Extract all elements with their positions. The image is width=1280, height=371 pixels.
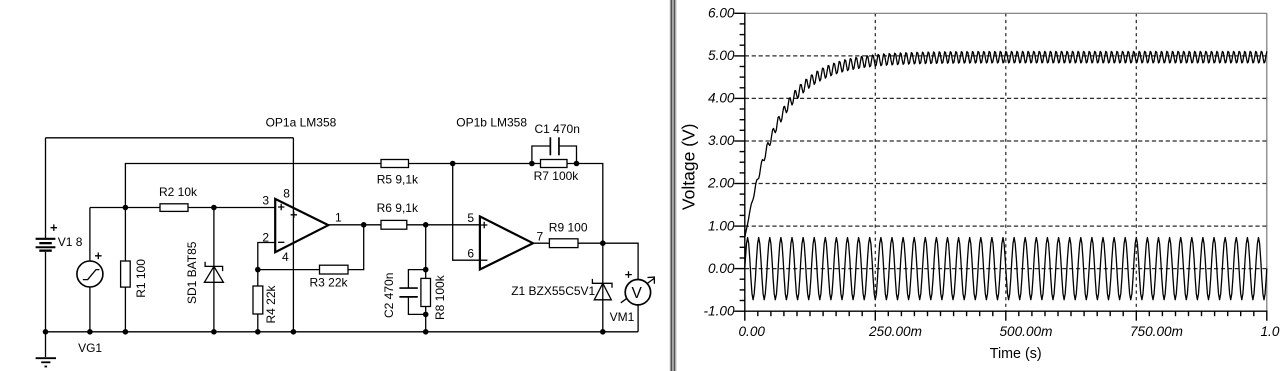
svg-text:6.00: 6.00 (708, 6, 735, 21)
svg-text:4.00: 4.00 (708, 91, 735, 106)
wire: OP1b output to R9 (533, 242, 549, 244)
svg-text:R7 100k: R7 100k (534, 169, 580, 183)
y minor ticks (740, 300, 746, 302)
svg-text:0.00: 0.00 (708, 261, 735, 276)
svg-text:C1 470n: C1 470n (535, 122, 580, 136)
svg-text:8: 8 (283, 187, 290, 201)
svg-text:SD1 BAT85: SD1 BAT85 (185, 241, 199, 304)
zener Z1 (592, 243, 612, 332)
svg-text:C2 470n: C2 470n (382, 273, 396, 318)
trace: sine input (745, 238, 1267, 300)
node: C2 branch bottom (423, 312, 429, 318)
node: C2 branch top (423, 267, 429, 273)
op-amp U2 OP1b (480, 216, 533, 269)
chart y axis (744, 13, 746, 312)
svg-text:250.00m: 250.00m (868, 324, 922, 339)
svg-text:500.00m: 500.00m (1000, 324, 1053, 339)
node: VG1 bottom junction (87, 329, 93, 335)
wire: VM1 top branch (603, 243, 638, 279)
wire: OP1a supply rail pin8/pin4 (292, 138, 294, 332)
chart frame right (1266, 13, 1268, 311)
resistor R2 (160, 204, 188, 212)
node: R3 output junction (361, 222, 367, 228)
trace: rectified average output (745, 51, 1267, 238)
op-amp U1 OP1a (275, 199, 328, 252)
resistor R1 (121, 208, 131, 332)
svg-text:V: V (632, 285, 643, 302)
svg-text:750.00m: 750.00m (1130, 324, 1183, 339)
resistor R9 (549, 239, 578, 248)
node: ground rail left junction (43, 329, 49, 335)
wire: R9 right lead (578, 242, 603, 244)
chart grid horizontal dashed lines (745, 268, 1267, 270)
wire: battery bottom lead to ground rail (45, 252, 47, 332)
svg-text:R5 9,1k: R5 9,1k (377, 172, 419, 186)
chart frame top (745, 12, 1267, 14)
resistor R3 (320, 265, 349, 274)
svg-text:R9 100: R9 100 (549, 221, 588, 235)
node: C2 R8 top junction (423, 222, 429, 228)
window splitter divider (670, 0, 677, 371)
svg-text:R4 22k: R4 22k (264, 284, 278, 323)
wire: R7 right to output rail (567, 164, 603, 244)
svg-text:3.00: 3.00 (708, 133, 735, 148)
battery V1 (36, 224, 58, 251)
x minor ticks (757, 311, 759, 317)
node: R4 bottom junction (255, 329, 261, 335)
svg-text:R2 10k: R2 10k (159, 185, 198, 199)
svg-text:5: 5 (467, 211, 474, 225)
wire: feedback line R5 to R7 (409, 163, 541, 165)
node: output node Z1 VM1 (600, 240, 606, 246)
node: C1 right junction (574, 161, 580, 167)
wire: OP1a pin 2 feedback stub (258, 243, 275, 270)
generator VG1 (77, 253, 103, 288)
svg-text:V1 8: V1 8 (58, 235, 83, 249)
svg-text:0.00: 0.00 (739, 324, 766, 339)
svg-text:3: 3 (262, 193, 269, 207)
resistor R8 (421, 270, 431, 332)
node: R8 bottom junction (423, 329, 429, 335)
svg-text:OP1b LM358: OP1b LM358 (456, 116, 527, 130)
svg-text:5.00: 5.00 (708, 48, 735, 63)
node: SD1 bottom junction (211, 329, 217, 335)
chart x axis (744, 310, 1267, 312)
svg-text:R1 100: R1 100 (134, 259, 148, 298)
svg-text:2.00: 2.00 (707, 176, 735, 191)
wire: input bus VG1 to OP1a pin 3 (90, 207, 275, 209)
wire: left rail battery top lead (45, 138, 47, 238)
svg-text:1.0: 1.0 (1261, 324, 1280, 339)
svg-text:R6 9,1k: R6 9,1k (377, 201, 419, 215)
svg-text:VG1: VG1 (78, 341, 102, 355)
svg-text:R8 100k: R8 100k (433, 274, 447, 320)
svg-text:Time (s): Time (s) (990, 346, 1042, 362)
wire: drop to C2/R8 (425, 225, 427, 270)
ground (36, 332, 56, 368)
wire: pin 6 drop (453, 164, 480, 261)
wire: top supply rail from battery to OP1a pin 8 (46, 137, 294, 139)
wire: OP1a output to R6 (328, 224, 381, 226)
resistor R5 (381, 160, 409, 168)
resistor R6 (381, 220, 407, 229)
x major ticks (744, 311, 746, 321)
svg-text:1.00: 1.00 (708, 218, 735, 233)
svg-text:R3 22k: R3 22k (310, 276, 349, 290)
resistor R4 (253, 270, 263, 332)
svg-text:OP1a LM358: OP1a LM358 (266, 116, 337, 130)
capacitor C1 (532, 137, 577, 163)
node: OP1a pin 4 bottom junction (291, 329, 297, 335)
wire: bottom ground rail (46, 331, 639, 333)
resistor R7 (541, 160, 568, 168)
wire: riser to feedback line (125, 164, 381, 208)
node: OP1b pin 6 junction (450, 161, 456, 167)
voltmeter VM1 (621, 271, 655, 305)
diode SD1 (204, 208, 223, 332)
node: R3 R4 pin2 junction (255, 267, 261, 273)
svg-text:Z1 BZX55C5V1: Z1 BZX55C5V1 (511, 284, 595, 298)
svg-text:-1.00: -1.00 (704, 303, 735, 318)
wire: R3 left lead (258, 269, 320, 271)
y major ticks (734, 310, 745, 312)
wire: VM1 bottom lead (637, 305, 639, 332)
node: R1 top junction (123, 205, 129, 211)
wire: R3 right lead riser to output (348, 225, 364, 270)
node: C1 left junction (529, 161, 535, 167)
capacitor C2 (399, 270, 425, 315)
node: SD1 top junction (211, 205, 217, 211)
node: Z1 bottom junction (600, 329, 606, 335)
svg-text:7: 7 (537, 230, 544, 244)
wire: R6 to OP1b pin 5 (407, 224, 480, 226)
svg-text:1: 1 (335, 211, 342, 225)
svg-text:Voltage (V): Voltage (V) (679, 124, 699, 211)
svg-text:6: 6 (467, 246, 474, 260)
wire: VG1 bottom lead (89, 287, 91, 332)
chart grid vertical dashed lines (874, 13, 876, 311)
svg-text:VM1: VM1 (610, 310, 635, 324)
node: R1 bottom junction (123, 329, 129, 335)
svg-text:4: 4 (282, 250, 289, 264)
wire: VG1 top lead (89, 208, 91, 262)
